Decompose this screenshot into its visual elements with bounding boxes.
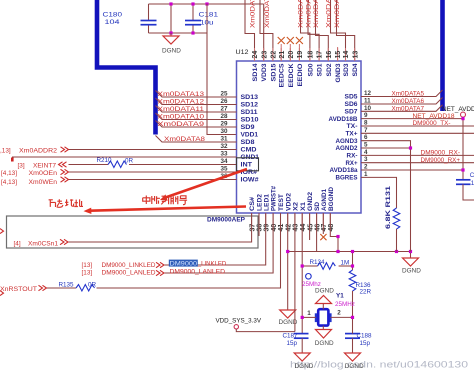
svg-text:14: 14 [343,51,350,59]
svg-text:SD13: SD13 [241,94,259,101]
wire XnRSTOUT row to pin41 with resistor R135 [46,287,76,289]
wire Xm0DATA10 row pin28 [156,113,237,120]
wire Xm0DATA3 (pin14) [331,0,346,61]
pin numbers bottom 37-48 (vertical) [249,224,335,232]
annotation text 中断引脚号 (interrupt pin) [143,196,187,205]
svg-text:5: 5 [364,142,368,149]
wire top GND rail [149,32,208,34]
wire Xm0CSn1 row to pin37 [69,213,252,242]
junction dots on rails [169,2,172,5]
svg-text:9: 9 [364,112,368,119]
connector stub left edge (y~230) [0,229,4,234]
svg-text:TX-: TX- [347,123,358,130]
svg-text:CS#: CS# [249,196,256,211]
wire Xm0DATA6 row pin11 [361,98,443,105]
capacitor C190 (right edge) [456,172,474,200]
svg-text:Xm0DATA11: Xm0DATA11 [158,106,205,113]
svg-text:BGGND: BGGND [328,187,335,211]
svg-text:C187: C187 [283,333,299,340]
svg-text:Xm0DATA14: Xm0DATA14 [250,0,257,28]
svg-text:0R: 0R [88,281,97,288]
svg-text:X2: X2 [293,201,300,211]
pin labels left column [241,94,260,184]
svg-text:18: 18 [308,51,315,59]
svg-text:47: 47 [321,224,328,232]
annotation arrow 1 (to INT pin) [160,169,247,201]
svg-text:SD14: SD14 [252,63,259,82]
svg-text:12: 12 [364,90,372,97]
wire pin43 VDD column [294,213,296,332]
annotation arrow 2 (chip select) [84,207,247,215]
svg-text:30: 30 [220,128,228,135]
svg-text:[4,13]: [4,13] [1,170,17,177]
svg-text:44: 44 [300,224,307,232]
wire Xm0DATA2 (pin16) [316,0,329,61]
svg-text:25: 25 [220,91,228,98]
svg-text:[13]: [13] [82,262,93,269]
wire Xm0DATA7 row pin10 [361,105,443,112]
wire DM9000_RX- row pin4 [361,154,474,156]
svg-text:X1: X1 [300,201,307,211]
svg-text:SD3: SD3 [343,63,350,77]
wire pin44 X1 column [301,213,303,334]
svg-text:CMD: CMD [241,147,258,154]
svg-text:Xm0WEn: Xm0WEn [29,179,58,186]
svg-text:VDD_SYS_3.3V: VDD_SYS_3.3V [216,317,262,324]
svg-text:39: 39 [263,224,270,232]
capacitor C187 [283,333,309,354]
svg-text:41: 41 [278,224,285,232]
wire pin46 to rail [316,213,318,252]
svg-text:26: 26 [220,98,228,105]
svg-text:Xm0DATA10: Xm0DATA10 [158,114,205,121]
annotation text 片选地址 (chip select address) [49,199,83,207]
no-ERC tick pin33 [11,158,14,162]
svg-text:45: 45 [307,224,314,232]
svg-text:SD5: SD5 [345,94,359,101]
svg-text:C188: C188 [357,333,373,340]
selection box (gray) around lower-left area [7,216,259,248]
svg-text:Xm0DATA8: Xm0DATA8 [164,136,206,143]
svg-text:1M: 1M [341,259,350,266]
svg-text:C1: C1 [470,172,474,179]
svg-text:Xm0OEn: Xm0OEn [29,170,58,177]
svg-text:Xm0CSn1: Xm0CSn1 [28,240,58,247]
resistor R134 1M [302,259,352,269]
ground DGND (rail right) [402,252,421,275]
pin stubs (bright) [252,48,355,226]
svg-text:AGND1: AGND1 [321,189,328,211]
svg-text:0R: 0R [125,157,134,164]
svg-text:SD4: SD4 [352,63,359,77]
ground DGND (top caps) [162,33,181,55]
net label DM9000_LINKLED (selected) [169,260,198,267]
svg-text:33: 33 [220,151,228,158]
svg-text:48: 48 [328,224,335,232]
wire pin48 BGGND [330,213,338,252]
crystal Y1 25MHz [302,293,355,326]
svg-text:25Mhz: 25Mhz [302,281,321,288]
wire Xm0OEn row pin35 [69,171,237,173]
wire GND1 row pin33 [12,156,237,158]
selection box around INT pin label [237,158,259,171]
svg-text:_LINKLED: _LINKLED [197,261,227,268]
svg-text:Y1: Y1 [336,293,344,300]
svg-text:DM9000: DM9000 [170,261,198,268]
svg-text:TEST: TEST [278,194,285,211]
svg-text:15p: 15p [287,340,298,347]
wire Xm0ADDR2 row pin32 [69,149,237,151]
bus right NET_AVDD bus [440,0,445,111]
wire Xm0DATA15 (pin22) [260,0,273,61]
svg-text:SD2: SD2 [326,63,333,77]
wire BGRES row pin1 to R131 [361,177,397,208]
no-connect X pin20 EEDCK [289,44,291,61]
svg-text:AVDD18a: AVDD18a [330,167,358,174]
svg-text:SD15: SD15 [270,63,277,82]
wire Xm0DATA5 row pin12 [361,90,443,97]
svg-text:DM9000_LANLED: DM9000_LANLED [170,268,226,275]
svg-text:DGND: DGND [295,363,314,370]
svg-text:SD1: SD1 [317,63,324,77]
svg-text:SD8: SD8 [241,139,256,146]
no-connect X pin47 AGND1 [322,213,324,234]
ground DGND below crystal (case) [315,326,334,347]
wire DM9000_RX+ row pin3 [361,162,474,164]
svg-text:VDD2: VDD2 [285,192,292,211]
wire Xm0DATA4 (pin13) [337,0,355,61]
svg-text:11: 11 [364,98,371,105]
svg-text:104: 104 [105,19,121,26]
svg-text:http://blog.csdn. net/u0146001: http://blog.csdn. net/u014600130 [290,360,468,370]
svg-text:XnRSTOUT: XnRSTOUT [0,286,37,293]
svg-text:DGND: DGND [402,267,421,274]
svg-text:17: 17 [317,51,324,59]
svg-text:SD11: SD11 [241,109,259,116]
svg-text:43: 43 [293,224,300,232]
svg-text:EEDCS: EEDCS [279,64,286,88]
ground DGND (C188) [345,353,365,370]
svg-text:BGRES: BGRES [336,175,358,182]
svg-text:R134: R134 [310,259,326,266]
junction dots bottom [286,250,289,253]
svg-text:Xm0DATA13: Xm0DATA13 [158,91,205,98]
svg-text:6: 6 [364,134,368,141]
svg-text:15: 15 [335,51,342,59]
svg-text:31: 31 [220,136,228,143]
wire XEINT7 row pin34 with resistor R210 [69,164,109,166]
svg-text:19: 19 [297,51,304,59]
wire AGND2 row pin5 [361,147,411,149]
svg-text:RX+: RX+ [346,160,358,167]
svg-text:Xm0DATA4: Xm0DATA4 [334,0,341,28]
svg-text:DGND: DGND [345,363,364,370]
svg-text:Xm0DATA5: Xm0DATA5 [392,91,425,98]
svg-text:NET_AVDD18: NET_AVDD18 [413,113,456,120]
capacitor C181 [185,4,219,33]
svg-text:Xm0DATA7: Xm0DATA7 [392,106,425,113]
pin labels bottom row (vertical) [249,186,335,211]
wire DM9000_LANLED row to pin40 [165,213,274,273]
svg-text:[4]: [4] [14,240,21,247]
no-connect X pin21 EEDCS [280,44,282,61]
ground DGND (C187) [294,353,314,370]
svg-text:[3]: [3] [18,163,25,170]
svg-text:DGND: DGND [315,340,334,347]
svg-text:37: 37 [249,224,256,232]
svg-text:Xm0DATA9: Xm0DATA9 [158,121,205,128]
svg-text:VDD1: VDD1 [241,132,259,139]
svg-text:DM9000_RX-: DM9000_RX- [421,150,461,157]
svg-text:16: 16 [326,51,333,59]
svg-text:Xm0ADDR2: Xm0ADDR2 [19,148,57,155]
wire DM9000_TX- row pin8 [361,125,474,127]
wire Xm0DATA1 (pin17) [308,0,319,61]
pin numbers right 12-1 [364,90,372,178]
svg-text:DM9000_LANLED: DM9000_LANLED [102,269,156,276]
svg-text:VDD3: VDD3 [261,63,268,82]
resistor R131 6.8K [385,185,400,251]
bus left NET bus [97,0,156,135]
svg-text:C181: C181 [199,12,219,19]
svg-text:Xm0DATA1: Xm0DATA1 [306,0,313,28]
wire Xm0DATA14 (pin24) [245,0,255,61]
svg-text:8: 8 [364,120,368,127]
wire AVDD18 vertical with capacitor [462,117,464,180]
svg-text:6.8K R131: 6.8K R131 [385,185,392,229]
resistor R210 0R [108,161,127,168]
svg-text:4: 4 [364,149,368,156]
svg-text:15p: 15p [360,340,371,347]
wire AGND3 row pin6 [361,141,411,252]
wire Xm0DATA8 row pin31 [156,136,237,143]
svg-text:27: 27 [220,106,228,113]
wire Xm0DATA0 (pin18) [301,0,310,61]
net port 25Mhz [302,274,321,288]
svg-text:10: 10 [364,105,372,112]
svg-text:32: 32 [220,143,228,150]
svg-text:1: 1 [307,310,311,317]
svg-text:NET_AVDD1: NET_AVDD1 [442,106,474,113]
svg-text:SD9: SD9 [241,124,256,131]
svg-text:AGND3: AGND3 [336,138,358,145]
svg-text:2: 2 [364,164,368,171]
pin labels top row (vertical) [252,63,359,88]
svg-text:3: 3 [364,156,368,163]
wire VDD3 (pin23) [263,4,265,61]
svg-text:R210: R210 [97,157,113,164]
svg-text:22R: 22R [360,289,372,296]
svg-text:24: 24 [252,51,259,59]
svg-text:25MHz: 25MHz [335,301,355,308]
svg-text:AVDD18B: AVDD18B [329,116,358,123]
wire AVDD18a row pin2 [361,169,463,171]
svg-text:U12: U12 [236,49,249,56]
svg-text:13: 13 [352,51,359,59]
capacitor C180 [103,4,157,33]
svg-text:C180: C180 [103,12,123,19]
svg-text:[13]: [13] [82,269,93,276]
resistor R135 0R [76,285,95,292]
wire GND3 stub (pin15) [337,47,339,61]
svg-text:1: 1 [364,171,368,178]
ground DGND above crystal (case) [315,288,334,310]
svg-text:INT: INT [241,162,253,169]
wire Xm0DATA12 row pin26 [156,98,237,105]
svg-text:DM9000_LINKLED: DM9000_LINKLED [102,262,156,269]
svg-text:SD0: SD0 [307,63,314,77]
svg-text:28: 28 [220,113,228,120]
wire Xm0WEn row pin36 [69,179,237,181]
wire Xm0DATA11 row pin27 [156,106,237,113]
wire pin38 stub [258,213,260,236]
svg-text:42: 42 [285,224,292,232]
wire TX+ row pin7 [361,132,474,134]
svg-text:Xm0DATA6: Xm0DATA6 [392,98,425,105]
wire VDD1 feed (vertical x=207) [207,4,237,135]
wire Xm0DATA13 row pin25 [156,91,237,98]
svg-text:PWRST#: PWRST# [271,186,278,211]
svg-text:Xm0DATA2: Xm0DATA2 [313,0,320,28]
svg-text:Xm0DATA3: Xm0DATA3 [326,0,333,28]
svg-text:SD6: SD6 [345,101,359,108]
svg-text:IOW#: IOW# [241,177,260,184]
svg-text:XEINT7: XEINT7 [33,163,56,170]
wire top VDD rail [149,3,264,5]
svg-text:DGND: DGND [315,288,334,295]
port NET_AVDD18 [461,112,466,117]
pin labels right column [329,94,359,182]
wire NET_AVDD18 row pin9 [361,118,463,120]
svg-text:29: 29 [220,121,228,128]
wire DM9000_LINKLED row to pin39 [165,213,266,265]
svg-text:LED1: LED1 [263,193,270,211]
wire rail tap [170,4,172,33]
svg-text:23: 23 [261,51,268,59]
svg-text:22: 22 [271,51,278,59]
svg-text:40: 40 [271,224,278,232]
op-amp U12 DM9000AEP IC body [237,61,362,213]
power port VDD_SYS_3.3V [216,317,295,331]
svg-text:SD10: SD10 [241,117,260,124]
ground DGND (pin42) [279,310,298,326]
svg-text:Xm0DATA15: Xm0DATA15 [264,0,271,28]
no-connect X pin19 EEDIO [298,44,300,61]
svg-text:20: 20 [288,51,295,59]
wire Xm0DATA9 row pin29 [156,121,237,128]
junction dots right [461,117,464,120]
svg-text:21: 21 [279,51,286,59]
pin numbers top 24-13 (vertical) [252,51,359,59]
svg-text:35: 35 [220,166,228,173]
svg-text:,13]: ,13] [0,148,11,155]
svg-text:EEDIO: EEDIO [297,63,304,86]
svg-text:GND2: GND2 [307,191,314,211]
svg-text:DM9000_TX-: DM9000_TX- [413,120,451,127]
wire pin45 stub [309,213,311,240]
svg-text:RX-: RX- [347,153,358,160]
svg-text:DM9000_RX+: DM9000_RX+ [421,157,461,164]
svg-text:2: 2 [337,309,341,316]
svg-text:Xm0DATA0: Xm0DATA0 [298,0,305,28]
svg-text:R135: R135 [59,281,75,288]
wire pin42 to DGND [287,213,289,310]
svg-text:SD7: SD7 [345,109,359,116]
svg-text:DGND: DGND [162,48,181,55]
svg-text:AGND2: AGND2 [336,145,358,152]
svg-text:GND3: GND3 [335,63,342,83]
svg-text:SD12: SD12 [241,102,259,109]
pin numbers left 25-36 [220,91,228,181]
connector stub left edge (y~292) [0,291,4,296]
resistor R136 22R [349,252,371,318]
wire ground rail [288,251,411,253]
svg-text:34: 34 [220,158,228,165]
svg-text:7: 7 [364,127,368,134]
svg-text:[4,13]: [4,13] [1,179,17,186]
svg-text:Xm0DATA12: Xm0DATA12 [158,99,205,106]
svg-text:DM9000AEP: DM9000AEP [207,216,245,223]
svg-text:TX+: TX+ [346,131,358,138]
svg-text:EEDCK: EEDCK [288,63,295,87]
capacitor C188 [345,317,372,353]
